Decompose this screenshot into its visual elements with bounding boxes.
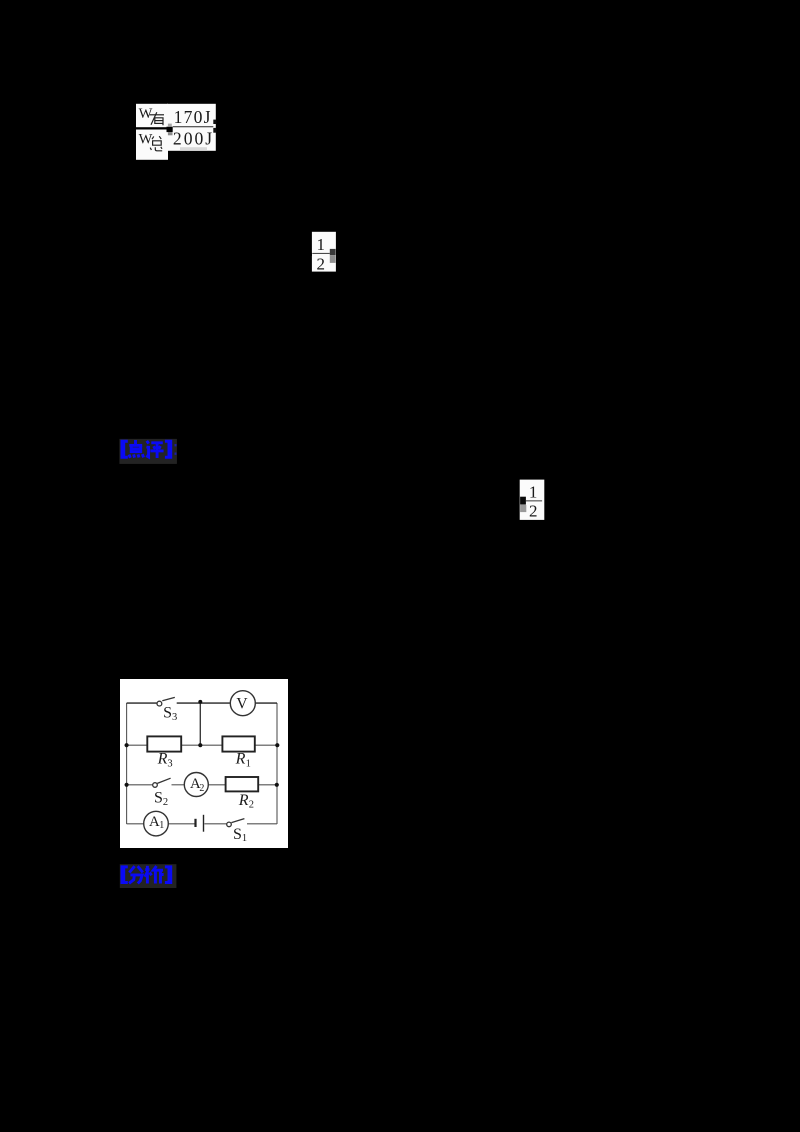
svg-text:1: 1 [246, 758, 251, 769]
switch S1 [227, 819, 245, 827]
wire row4 battery to S1 [204, 823, 226, 825]
bracket 】 [165, 865, 172, 884]
svg-text:3: 3 [167, 759, 172, 770]
right fraction bar [173, 126, 214, 127]
left nub [310, 253, 312, 256]
white box [520, 480, 545, 520]
svg-text:2: 2 [316, 255, 325, 273]
junction dot top [198, 700, 202, 704]
wire row3 A2 to R2 [208, 784, 225, 786]
wire row4 S1 to right [247, 823, 277, 825]
junction dot row2 right [275, 743, 279, 747]
voltmeter V [230, 691, 255, 716]
wire top row V to right [255, 702, 277, 704]
wire row3 left [127, 784, 153, 786]
resistor R3 [147, 736, 181, 751]
wire row3 S2 to A2 [172, 784, 185, 786]
wire right vertical [276, 703, 278, 824]
right fraction white box [167, 104, 216, 151]
junction dot row2 left [125, 743, 129, 747]
black square left [520, 497, 526, 505]
gray square left lower [520, 505, 526, 512]
fraction bar [312, 253, 330, 254]
char 分 [129, 866, 143, 883]
resistor R2 [226, 777, 259, 791]
bracket 【 [121, 865, 128, 884]
wire row4 A1 to battery [168, 823, 194, 825]
svg-text:R: R [235, 751, 246, 768]
circuit diagram [120, 679, 288, 848]
svg-text:1: 1 [159, 820, 164, 831]
wire top row junction to V [200, 702, 230, 704]
svg-text:R: R [157, 751, 168, 768]
dark square right [330, 249, 336, 255]
wire row2 mid [181, 744, 222, 746]
white box [312, 232, 336, 272]
svg-text:A: A [149, 814, 160, 830]
left fraction bar [136, 127, 167, 129]
svg-text:R: R [238, 792, 249, 809]
wire row4 left [127, 823, 144, 825]
battery cell [196, 815, 204, 832]
formula W有/W总 = 170J/200J [136, 103, 218, 161]
faint marks right [175, 444, 177, 446]
char 点 [129, 440, 144, 458]
right edge mark lower [213, 128, 216, 133]
switch S2 [153, 778, 171, 787]
subscript 总 glyph [150, 136, 162, 151]
svg-text:V: V [236, 696, 248, 713]
gray mark below equals [168, 132, 173, 135]
ammeter A2 [184, 773, 208, 797]
bracket 【 [121, 440, 128, 459]
fraction bar [526, 500, 542, 501]
wire row2 right [255, 744, 277, 746]
dark gray backing box [119, 439, 176, 464]
wire row3 right [258, 784, 277, 786]
ammeter A1 [144, 811, 169, 836]
subscript 有 glyph [150, 112, 164, 125]
bracket 】 [165, 440, 172, 459]
char 评 [146, 441, 163, 458]
resistor R1 [222, 736, 254, 751]
wire top row left of S3 [127, 702, 157, 704]
junction dot row3 right [275, 783, 279, 787]
right edge mark upper [213, 120, 216, 124]
wire left vertical [126, 703, 128, 824]
gray mark above equals [168, 124, 172, 127]
light gray strip bottom [180, 147, 207, 151]
svg-text:W: W [139, 131, 153, 147]
fraction 1/2 (first) [310, 231, 338, 273]
svg-text:W: W [139, 106, 153, 122]
wire middle vertical [199, 703, 201, 745]
white panel [120, 679, 288, 848]
switch S3 [157, 697, 175, 706]
char 析 [145, 866, 164, 884]
dark gray backing box [120, 864, 177, 888]
gray square right lower [330, 255, 336, 263]
wire row2 left [127, 744, 148, 746]
junction dot row2 mid [198, 743, 202, 747]
svg-text:2: 2 [199, 783, 204, 794]
fraction 1/2 (second) [518, 478, 547, 521]
blue label 【分析】 [118, 862, 179, 890]
svg-text:2: 2 [249, 800, 254, 811]
svg-text:200J: 200J [173, 129, 214, 149]
equals artifact black square [167, 127, 173, 132]
wire top row S3 to junction [177, 702, 201, 704]
svg-text:1: 1 [529, 482, 538, 501]
svg-text:2: 2 [529, 502, 538, 521]
left fraction white box [136, 104, 168, 160]
junction dot row3 left [125, 783, 129, 787]
svg-text:1: 1 [316, 235, 325, 254]
blue label 【点评】 [118, 437, 179, 466]
svg-text:170J: 170J [174, 107, 212, 127]
